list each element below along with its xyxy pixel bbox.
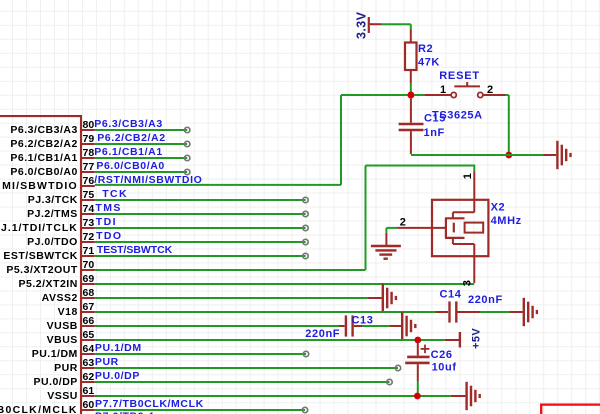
open wire end dot pin 78 (185, 155, 190, 160)
svg-text:TDO: TDO (96, 230, 122, 242)
junction on VBUS wire (414, 337, 421, 344)
svg-text:P7.6/TB0.4: P7.6/TB0.4 (95, 411, 154, 414)
svg-text:80: 80 (83, 119, 95, 131)
ground GND at reset rail (557, 141, 570, 169)
pin 80 stub (10, 119, 94, 136)
wire pin 70 XT2OUT to X2 pin 1 (95, 165, 475, 271)
capacitor C14 (440, 289, 503, 323)
svg-text:62: 62 (83, 371, 95, 383)
svg-text:73: 73 (83, 217, 95, 229)
wire C15 bottom rail to ground (411, 154, 556, 156)
svg-text:P6.2/CB2/A2: P6.2/CB2/A2 (97, 132, 165, 144)
C15 bottom plate (399, 129, 424, 132)
svg-text:72: 72 (83, 231, 95, 243)
switch contact circle pin 2 (478, 92, 483, 97)
svg-text:C13: C13 (352, 315, 374, 327)
X2 left electrode bar (445, 218, 447, 238)
X2 body rect (465, 223, 484, 233)
open wire end dot pin 62 (387, 379, 392, 384)
capacitor C15 (399, 98, 446, 154)
ground GND at C14 (524, 298, 537, 326)
svg-text:PUR: PUR (54, 362, 78, 374)
svg-text:VBUS: VBUS (47, 334, 78, 346)
svg-text:P7.7/TB0CLK/MCLK: P7.7/TB0CLK/MCLK (95, 398, 204, 410)
svg-text:10uf: 10uf (432, 362, 457, 374)
svg-text:70: 70 (83, 259, 95, 271)
svg-text:1nF: 1nF (424, 127, 445, 139)
svg-text:TMS: TMS (95, 202, 121, 214)
pin 74 stub (27, 203, 95, 220)
pin 62 stub (33, 371, 94, 388)
open wire end dot pin 73 (303, 225, 308, 230)
wire pin 72 (95, 239, 308, 244)
svg-text:64: 64 (83, 343, 95, 355)
pin 75 stub (28, 189, 95, 206)
X2 bottom plate (445, 237, 465, 239)
svg-text:PU.0/DP: PU.0/DP (95, 370, 140, 382)
wire pin 68 AVSS2 to ground (95, 297, 382, 299)
wire R2 to junction (410, 70, 412, 92)
svg-text:P5.2/XT2IN: P5.2/XT2IN (19, 278, 78, 290)
wire pin 73 (95, 225, 308, 230)
svg-text:PUR: PUR (95, 356, 119, 368)
svg-text:P6.0/CB0/A0: P6.0/CB0/A0 (10, 166, 77, 178)
svg-text:3.3V: 3.3V (355, 11, 369, 39)
svg-text:P6.3/CB3/A3: P6.3/CB3/A3 (10, 124, 77, 136)
ground GND at C13 (402, 312, 415, 340)
svg-text:C14: C14 (440, 289, 462, 301)
svg-text:PJ.0/TDO: PJ.0/TDO (27, 236, 78, 248)
svg-text:P6.2/CB2/A2: P6.2/CB2/A2 (10, 138, 77, 150)
pin 61 stub (47, 385, 95, 402)
pin 68 stub (42, 287, 95, 304)
svg-text:67: 67 (83, 301, 95, 313)
capacitor C13 (305, 315, 373, 341)
switch S1 RESET (TS3625A) (432, 70, 494, 121)
svg-text:P6.1/CB1/A1: P6.1/CB1/A1 (10, 152, 77, 164)
svg-text:68: 68 (83, 287, 95, 299)
svg-text:+5V: +5V (470, 328, 482, 349)
X2 pin 3 stem (473, 244, 475, 283)
wire pin 66 VUSB to C13 (95, 325, 345, 327)
svg-text:2: 2 (400, 217, 407, 229)
svg-text:47K: 47K (418, 57, 440, 69)
wire pin 80 (95, 127, 190, 132)
pin 76 stub (2, 175, 95, 192)
open wire end dot pin 64 (303, 351, 308, 356)
wire C14 to ground (458, 311, 523, 313)
svg-text:PJ.3/TCK: PJ.3/TCK (28, 194, 78, 206)
ground GND at pin 61 (467, 382, 480, 410)
svg-text:P6.0/CB0/A0: P6.0/CB0/A0 (96, 160, 164, 172)
open wire end dot pin 77 (185, 169, 190, 174)
svg-text:P5.3/XT2OUT: P5.3/XT2OUT (6, 264, 78, 276)
X2 pin 1 stem (473, 172, 475, 212)
svg-text:RESET: RESET (439, 70, 480, 82)
switch actuator stem (466, 82, 468, 86)
open wire end dot pin 75 (303, 197, 308, 202)
wire switch pin 2 down to bottom rail (483, 95, 509, 155)
open wire end dot pin 80 (185, 127, 190, 132)
svg-text:P6.3/CB3/A3: P6.3/CB3/A3 (94, 118, 162, 130)
pin 72 stub (27, 231, 95, 248)
junction on VSSU wire (414, 393, 421, 400)
pin 59 stub (20, 413, 95, 414)
wire pin 63 (95, 365, 401, 370)
capacitor C26 (polarized) (405, 342, 456, 396)
svg-text:220nF: 220nF (468, 294, 503, 306)
svg-text:VSSU: VSSU (47, 390, 78, 402)
svg-text:79: 79 (83, 133, 95, 145)
wire pin 60 (95, 407, 308, 412)
svg-text:R2: R2 (418, 43, 433, 55)
svg-text:C26: C26 (431, 349, 453, 361)
junction under R2 (RST node) (407, 92, 414, 99)
svg-text:76: 76 (83, 175, 95, 187)
pin 63 stub (54, 357, 95, 374)
wire X2 pin 2 to ground (386, 228, 397, 245)
wire C13 to ground (354, 325, 401, 327)
svg-text:TCK: TCK (102, 188, 128, 200)
svg-text:3: 3 (461, 279, 473, 286)
svg-text:74: 74 (83, 203, 95, 215)
X2 top plate (445, 217, 465, 219)
svg-text:75: 75 (83, 189, 95, 201)
svg-text:PU.1/DM: PU.1/DM (95, 342, 142, 354)
wire pin 75 (95, 197, 308, 202)
svg-text:B0CLK/MCLK: B0CLK/MCLK (0, 404, 78, 414)
svg-text:220nF: 220nF (305, 328, 340, 340)
pin 67 stub (58, 301, 95, 318)
svg-text:V18: V18 (58, 306, 78, 318)
svg-text:X2: X2 (491, 202, 506, 214)
wire pin 62 (95, 379, 392, 384)
svg-text:61: 61 (83, 385, 95, 397)
pin 64 stub (32, 343, 95, 360)
svg-text:66: 66 (83, 315, 95, 327)
svg-text:4MHz: 4MHz (491, 215, 522, 227)
wire pin 71 (95, 253, 308, 258)
svg-text:PJ.2/TMS: PJ.2/TMS (27, 208, 78, 220)
svg-text:60: 60 (83, 399, 95, 411)
pin 70 stub (6, 259, 94, 276)
C26 plus sign (421, 348, 430, 350)
svg-text:EST/SBWTCK: EST/SBWTCK (3, 250, 77, 262)
svg-text:1: 1 (440, 84, 447, 96)
svg-text:69: 69 (83, 273, 95, 285)
svg-text:1: 1 (462, 172, 474, 179)
svg-text:63: 63 (83, 357, 95, 369)
pin 69 stub (19, 273, 95, 290)
pin 65 stub (47, 329, 95, 346)
svg-text:PU.0/DP: PU.0/DP (33, 376, 77, 388)
wire pin 79 (95, 141, 190, 146)
ground GND at X2 pin 2 (down style) (371, 246, 401, 259)
wire pin 69 XT2IN to X2 pin 3 (95, 283, 475, 285)
svg-text:71: 71 (83, 245, 95, 257)
svg-text:77: 77 (83, 161, 95, 173)
X2 pin 2 stub (398, 227, 446, 229)
svg-text:TEST/SBWTCK: TEST/SBWTCK (97, 244, 173, 256)
open wire end dot pin 60 (302, 407, 307, 412)
open wire end dot pin 72 (303, 239, 308, 244)
open wire end dot pin 79 (185, 141, 190, 146)
pin 78 stub (10, 147, 94, 164)
svg-text:65: 65 (83, 329, 95, 341)
supply 3.3V symbol (355, 11, 381, 39)
open wire end dot pin 63 (395, 365, 400, 370)
C26 bottom plate (405, 362, 429, 365)
svg-text:C15: C15 (424, 112, 446, 124)
svg-text:78: 78 (83, 147, 95, 159)
wire pin 65 VBUS to +5V (95, 339, 459, 341)
open wire end dot pin 71 (303, 253, 308, 258)
svg-text:TDI: TDI (96, 216, 117, 228)
wire pin 61 VSSU to ground (95, 395, 466, 397)
svg-text:P6.1/CB1/A1: P6.1/CB1/A1 (94, 146, 162, 158)
C26 top plate (407, 356, 429, 359)
switch actuator bar (454, 85, 480, 87)
pin 60 stub (0, 399, 95, 414)
wire pin 78 (95, 155, 190, 160)
svg-text:PU.1/DM: PU.1/DM (32, 348, 78, 360)
svg-text:AVSS2: AVSS2 (42, 292, 78, 304)
IC U1 body outline (0, 116, 81, 414)
supply +5V symbol (460, 328, 482, 349)
svg-text:J.1/TDI/TCLK: J.1/TDI/TCLK (1, 222, 78, 234)
sheet frame corner (red) (541, 405, 600, 414)
switch contact circle pin 1 (451, 92, 456, 97)
wire junction to switch pin 1 (414, 94, 451, 96)
pin 77 stub (10, 161, 94, 178)
ground GND at pin 68 (383, 284, 396, 312)
wire pin 64 (95, 351, 309, 356)
wire pin 74 (95, 211, 308, 216)
pin 73 stub (1, 217, 95, 234)
svg-text:MI/SBWTDIO: MI/SBWTDIO (2, 180, 78, 192)
svg-text:VUSB: VUSB (47, 320, 78, 332)
junction on reset ground rail (505, 152, 512, 159)
X2 small electrode bar (453, 223, 455, 233)
pin 79 stub (10, 133, 94, 150)
wire pin 67 V18 to C14 (95, 311, 448, 313)
resistor R2 (405, 43, 440, 71)
crystal X2 4MHz (398, 172, 522, 286)
pin 66 stub (47, 315, 95, 332)
wire 3.3V to R2 (381, 24, 411, 42)
wire pin 76 /RST net to reset circuit (95, 95, 408, 185)
pin 71 stub (3, 245, 94, 262)
open wire end dot pin 74 (303, 211, 308, 216)
wire pin 77 (95, 169, 190, 174)
C15 top plate (399, 123, 424, 126)
